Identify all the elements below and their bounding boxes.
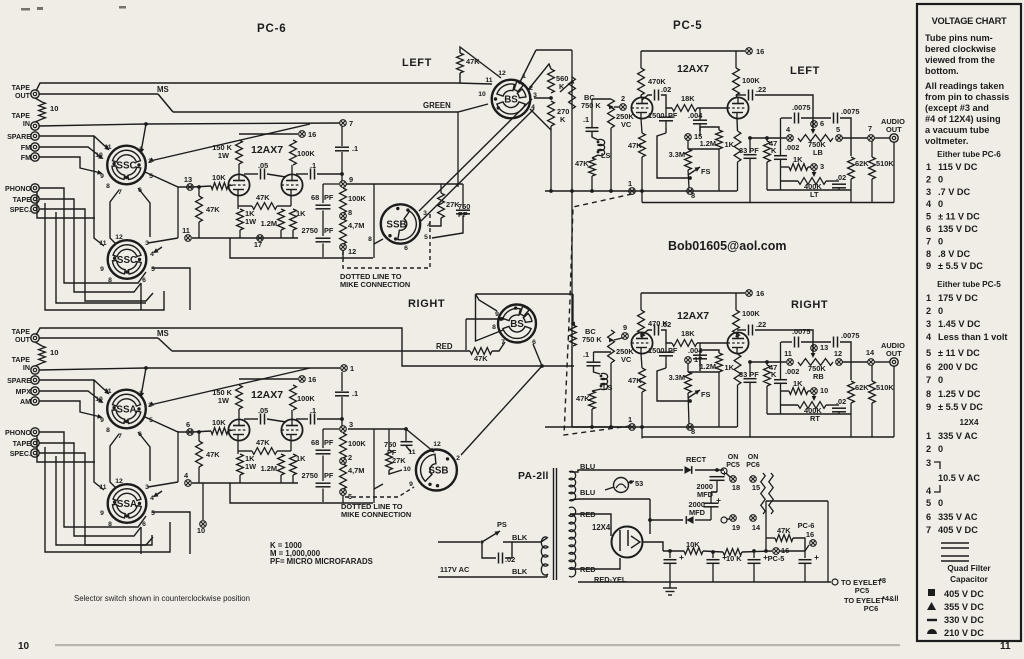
capacitor .02 tone L [832,184,846,188]
wire 47K tone top R [766,362,768,365]
svg-text:+: + [814,552,819,562]
junction shield rail L [570,189,574,193]
terminal 4 L [787,135,794,142]
resistor 150K 1W R [236,385,243,409]
svg-text:510K: 510K [876,159,894,168]
svg-text:3: 3 [349,420,353,429]
transformer secondary BLU winding [569,471,576,501]
wire lamp left [605,487,614,490]
wire RED run [172,350,470,352]
transformer core [554,468,557,580]
wire FM1 to selector pin10 R [39,391,102,402]
wire PC5 bottom rail L [642,202,894,204]
wire .02 to 18K R [661,330,672,343]
wire plate rail R [239,378,298,380]
svg-text:10: 10 [50,104,58,113]
wire FM2 to selector pin9 R [39,401,101,417]
svg-text:9: 9 [100,510,104,517]
pot arrow BC R [571,322,575,328]
wire .1 to LS L [592,132,598,141]
switch spring PC5 [761,473,765,514]
svg-text:47K: 47K [474,354,488,363]
FS arrow L [695,167,701,172]
wire tube cathode out [643,542,663,551]
wire C.1 to node R [341,397,343,426]
wire PHONO run R [39,432,146,527]
svg-text:viewed from the: viewed from the [925,55,995,65]
svg-text:6: 6 [186,420,190,429]
wire selector2 pin6 down L [140,283,142,310]
svg-text:MS: MS [157,329,169,338]
capacitor 2750 PF L [316,238,331,242]
svg-text:12X4: 12X4 [592,523,611,532]
output circle to eyelet [832,579,838,585]
svg-text:62K: 62K [855,159,869,168]
wire TAPE IN bus R [39,368,340,370]
svg-text:8: 8 [108,521,112,528]
svg-text:15: 15 [752,483,760,492]
svg-text:.0075: .0075 [841,107,860,116]
wire SSB pin3 diagonal to BS [419,99,532,211]
svg-text:LS: LS [601,151,611,160]
wire 47K psu right [793,538,805,551]
triode V1b PC-6 L [281,174,302,195]
capacitor .1 LS L [586,128,599,132]
wire 642 to rail2 R [641,427,643,439]
capacitor 1500 PF R [659,352,673,356]
svg-text:0: 0 [938,174,943,184]
capacitor 750 PF L [456,210,470,214]
chart double rule 1 [941,543,969,548]
wire n5 to n7 L [842,137,868,139]
resistor 560K [548,69,555,93]
svg-text:8: 8 [108,277,112,284]
wire tone top right L [840,118,851,156]
svg-text:16: 16 [756,47,764,56]
wire 1.2M bottom R [280,475,282,483]
wire n5 to n7 R [842,361,868,363]
PS contact [480,540,483,543]
PS arrow [495,531,501,536]
resistor 10K filter 1 [684,548,703,555]
svg-text:2: 2 [621,94,625,103]
wire B+ vertical [827,501,829,582]
svg-text:18: 18 [732,483,740,492]
svg-text:12AX7: 12AX7 [251,389,283,401]
svg-text:47K: 47K [576,394,590,403]
svg-text:PHONO: PHONO [5,185,31,193]
potentiometer 250K VC R [608,330,615,363]
capacitor .1 vertical R [335,392,349,396]
wire 1500 PF gnd R [665,363,667,368]
wire filter row 4 [779,550,805,552]
svg-text:1.2M: 1.2M [700,139,716,148]
svg-text:bottom.: bottom. [925,66,959,76]
wire cathode2 down R [290,441,292,452]
wire .004 gnd L [699,131,701,136]
wire 2750 bottom R [322,489,324,503]
LS dot top R [600,375,603,378]
svg-text:All readings taken: All readings taken [925,81,1005,91]
wire filter cap B top [712,552,714,558]
wire SSB pin8 vertical L [373,184,375,258]
capacitor .0075 b R [834,337,838,348]
pot arrow BC L [569,79,575,84]
svg-text:PC5: PC5 [726,462,740,469]
svg-text:19: 19 [732,523,740,532]
pot wiper 400K L [812,172,817,177]
svg-text:GREEN: GREEN [423,101,451,110]
svg-text:SSC: SSC [117,255,137,266]
pot arrow VC L [609,105,614,110]
wire RED bot to tube [570,558,620,569]
junction 250K rail R [609,425,613,429]
svg-text:27K: 27K [392,456,406,465]
svg-text:100K: 100K [742,309,760,318]
capacitor .1 coupling L [311,169,315,180]
svg-text:FM: FM [21,144,31,152]
wire cap1 bus to switch [711,491,717,493]
capacitor 2000 MFD 2 [704,503,719,507]
resistor 47K psu [775,535,793,542]
wire diode2 right [695,519,711,521]
svg-text:47K: 47K [575,159,589,168]
jack TAPE L [31,195,39,203]
jack TAPE OUT R [31,334,39,342]
wire BS R pin8 feed [476,294,504,341]
svg-text:7: 7 [118,189,122,196]
svg-text:VOLTAGE CHART: VOLTAGE CHART [932,16,1007,26]
wire BS pin1 up right [519,50,536,84]
wire tone main L [750,137,786,139]
wire .1 top lead R [593,352,595,362]
svg-text:± 5.5 V DC: ± 5.5 V DC [938,402,983,412]
wire cathode2 down L [290,196,292,207]
wire 1K left R [781,390,789,392]
terminal 6 L [811,121,818,128]
svg-text:PC-5: PC-5 [768,554,785,563]
wire tape out upper run R [36,328,542,366]
svg-text:0: 0 [938,498,943,508]
wire term15 down L [687,140,689,149]
svg-text:+: + [763,552,768,562]
resistor 100K R [290,385,297,410]
svg-text:BLU: BLU [580,488,595,497]
wire 1K right R [808,390,811,392]
svg-text:14: 14 [752,523,761,532]
svg-text:.0075: .0075 [792,327,811,336]
wire .002 bot R [780,384,782,415]
svg-text:OUT: OUT [15,336,31,344]
svg-text:115 V DC: 115 V DC [938,162,978,172]
svg-text:750 K: 750 K [582,335,602,344]
svg-text:1500: 1500 [648,346,664,355]
voltage chart panel border [917,4,1021,641]
arrow pin11 L [104,145,109,150]
resistor 1.2M L [278,209,285,230]
wire 68-2750 L [322,211,324,237]
wire term to C.1 R [341,372,343,391]
wire 47K bot lead R [198,467,200,483]
terminal 4 R [185,480,192,487]
junction 47K rail R [590,425,594,429]
svg-text:10: 10 [95,152,103,159]
svg-text:K: K [560,115,566,124]
arrow SSA1 pin1 [140,392,145,397]
junction 47K tone R [765,360,769,364]
pot wiper VC R [614,338,622,340]
wire jack ground L [893,142,895,203]
svg-text:2: 2 [456,455,460,462]
svg-text:12X4: 12X4 [959,418,979,427]
jack PHONO L [31,184,39,192]
wire SSB pin8 link R [374,484,383,489]
svg-text:1W: 1W [218,151,229,160]
svg-text:135 V DC: 135 V DC [938,224,978,234]
FS arrow R [695,390,701,395]
jack MPX R [31,387,39,395]
wire SSA1 pin2 diagonal [150,368,310,405]
wire 470K top R [640,293,642,310]
mike socket SSB L [381,204,420,243]
wire pot to .1 cap [592,98,611,100]
wire 1K1W bottom R [239,475,241,483]
wire tone top left R [781,341,792,343]
svg-text:53: 53 [635,479,643,488]
wire filter cap A bot [669,564,671,583]
chart sym dash [927,619,937,621]
wire 1K2 bottom R [292,475,294,483]
wire vertical bus x94 R [94,380,104,490]
jack PHONO R [31,428,39,436]
svg-text:5: 5 [926,212,931,222]
filter cap C [748,560,761,564]
wire selector1 pin6 down L [138,188,150,237]
resistor 510K R [869,381,876,403]
svg-text:TAPE: TAPE [12,328,31,336]
terminal 2 VC L [620,104,627,111]
wire tone top left L [781,117,792,119]
wire tone rail drop L [850,190,852,203]
capacitor .0075 a R [795,337,799,348]
wire tone main R [750,361,786,363]
terminal 15 [750,476,757,483]
svg-text:+: + [679,552,684,562]
chart sym halfmoon [927,629,937,634]
wire .1 top lead L [591,99,593,128]
svg-text:MIKE CONNECTION: MIKE CONNECTION [341,510,411,519]
jack FM L [31,153,39,161]
resistor 10K L [211,183,228,190]
svg-text:.002: .002 [785,367,799,376]
wire plate to .02 L [642,95,652,100]
wire 1.2M bottom PC5 L [718,149,720,191]
jack AM R [31,397,39,405]
svg-text:12: 12 [348,247,356,256]
svg-text:10K: 10K [212,173,226,182]
resistor 47K cath PC5a L [639,133,646,157]
svg-text:Tube pins num-: Tube pins num- [925,33,993,43]
wire 1500 top R [665,343,667,352]
svg-text:10: 10 [18,641,30,652]
svg-text:12AX7: 12AX7 [251,144,283,156]
terminal 10 R [200,521,207,528]
wire selector2 pin6 down R [140,527,142,554]
svg-text:10: 10 [403,466,411,473]
svg-text:8: 8 [691,427,695,436]
wire .004 bottom L [699,124,701,131]
svg-text:335 V AC: 335 V AC [938,431,978,441]
wire BS R to shield [542,365,574,367]
svg-text:5: 5 [926,348,931,358]
wire 47K top to BS [460,47,501,78]
svg-text:4: 4 [926,199,932,209]
jack SPEC L [31,205,39,213]
arrow selector2 pin4 R [153,492,159,497]
wire filter cap D top [804,551,806,558]
wire BS R pin9 feed [466,318,501,320]
wire .004 top R [699,343,701,355]
wire 47K tone top L [766,138,768,141]
resistor 18K R [672,340,697,347]
resistor 47K RED [470,348,492,355]
svg-text:1: 1 [926,293,931,303]
wire 47K to BS pin12 [459,73,461,83]
junction 47K top R [197,430,201,434]
svg-text:1.45 V DC: 1.45 V DC [938,319,981,329]
wire tone top right R [840,342,851,380]
wire 10K to grid1 R [228,430,233,431]
switch stub 18 [726,473,730,477]
svg-text:1W: 1W [245,462,256,471]
terminal 16 (PC-6 L) [299,131,306,138]
MS switch arm R [158,338,172,351]
wire SSC1 pin2 diagonal [150,124,310,161]
wire lower rail L [230,238,373,258]
svg-text:+: + [722,552,727,562]
svg-text:1: 1 [350,364,354,373]
wire plate rail L [239,133,298,135]
svg-text:10K: 10K [686,540,700,549]
wire 33PF top R [749,362,751,377]
wire 642 to rail2 L [641,191,643,203]
wire SSB pin8 vertical R [373,429,375,503]
resistor 3.3M L [685,149,692,170]
svg-text:33 PF: 33 PF [739,146,759,155]
wire 62K bot R [850,403,852,414]
svg-text:8: 8 [368,236,372,243]
svg-text:9: 9 [926,402,931,412]
capacitor 33 PF R [744,379,757,383]
wire term to C.1 L [341,126,343,146]
junction 47K top L [197,185,201,189]
LS dot bot R [600,385,603,388]
wire FM2 to selector pin9 L [39,157,101,173]
terminal 16 PC-5 R [746,290,753,297]
svg-text:7: 7 [926,375,931,385]
svg-text:100K: 100K [297,394,315,403]
svg-text:3.3M: 3.3M [669,373,685,382]
svg-text:RECT: RECT [686,455,707,464]
svg-text:47K: 47K [256,193,270,202]
terminal 9 L [340,181,347,188]
wire 1K left L [781,166,789,168]
wire 750PF to pin11 [406,446,411,452]
triode V2b PC-5 R [727,332,748,353]
svg-text:0: 0 [938,375,943,385]
wire 47K psu left [766,537,775,539]
inductor LS L [598,139,605,155]
arrow pin9 L [97,170,102,175]
wire 1K1W bottom L [239,230,241,238]
svg-text:OUT: OUT [15,92,31,100]
svg-text:2: 2 [348,453,352,462]
rectifier diode 1 [685,466,692,474]
svg-text:TAPE: TAPE [12,112,31,120]
terminal 8 L [687,188,694,195]
svg-text:4: 4 [926,486,932,496]
output socket BS L [492,80,531,119]
svg-text:FM: FM [21,154,31,162]
wire pin9 to RED [465,319,467,350]
wire plate2 to .22 L [737,94,746,96]
wire 100K to plate R [736,332,737,337]
wire 3.3M to term8 L [688,170,689,188]
svg-text:.02: .02 [836,173,846,182]
resistor 1K second L [290,209,297,230]
selector switch SSA2 (R) [108,484,147,523]
wire 470K top L [640,51,642,68]
capacitor 2750 PF R [316,483,331,487]
svg-text:11: 11 [99,240,106,247]
wire 400K left R [781,404,798,406]
svg-text:175 V DC: 175 V DC [938,293,978,303]
wire R10 to TAPE IN L [35,119,42,122]
MS switch arm L [158,94,173,112]
capacitor .02 tone R [832,408,846,412]
switch contact 18o [721,468,727,474]
svg-text:1K: 1K [793,155,803,164]
svg-text:Bob01605@aol.com: Bob01605@aol.com [668,239,786,253]
wire tape out to MS R [39,337,158,339]
svg-text:.05: .05 [258,161,268,170]
svg-text:BLK: BLK [512,533,528,542]
svg-text:Either tube PC-6: Either tube PC-6 [937,150,1001,159]
svg-text:100K: 100K [348,194,366,203]
wire PC5 cathode rail L [545,190,737,192]
svg-text:a vacuum tube: a vacuum tube [925,125,989,135]
svg-text:10.5 V AC: 10.5 V AC [938,473,980,483]
junction 270K rail [549,189,553,193]
capacitor .02 R [655,325,659,336]
wire cathode rail R [192,482,298,484]
wire cath1 to 47K L [238,205,252,207]
wire cap1-cap2 join [711,491,717,493]
jack SPARE L [31,132,39,140]
capacitor 68 PF L [316,205,331,209]
arrow pin11 R [104,389,109,394]
svg-text:1500: 1500 [648,111,664,120]
resistor 4.7M L [340,219,347,244]
pot wiper BC L [560,84,569,92]
wire 68PF top h L [323,183,339,185]
svg-text:0: 0 [938,444,943,454]
wire 47K RED to BS pin7 [492,342,505,351]
audio out jack L [890,134,898,142]
wire diode2 row [650,519,683,521]
wire 68-2750 R [322,456,324,482]
terminal 8 L [340,213,347,220]
